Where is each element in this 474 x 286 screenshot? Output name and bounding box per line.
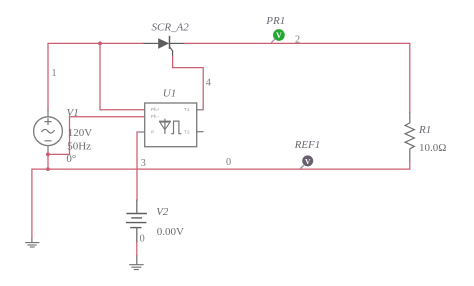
- svg-text:Ph+: Ph+: [151, 107, 160, 113]
- wire gate to U1 T1: [173, 56, 204, 110]
- wire to left ground: [32, 169, 48, 239]
- U1 inner thyristor triangle: [160, 122, 170, 130]
- U1 pin stub T1: [197, 109, 204, 111]
- SCR SCR_A2 triangle: [158, 38, 169, 49]
- AC source V1 plus sign: [45, 118, 52, 125]
- svg-text:R1: R1: [418, 124, 431, 136]
- svg-text:0: 0: [226, 157, 231, 168]
- AC source V1 sine: [42, 129, 55, 133]
- U1 pin stub T2: [197, 131, 204, 133]
- op-amp block U1 box: [145, 103, 197, 147]
- ground left: [25, 243, 39, 247]
- probe PR1 pointer: [271, 39, 275, 42]
- ground mid: [129, 265, 144, 270]
- svg-text:SCR_A2: SCR_A2: [152, 22, 190, 34]
- resistor R1 bottom lead: [409, 149, 411, 162]
- svg-text:V1: V1: [67, 107, 79, 119]
- resistor R1 top lead: [409, 112, 411, 123]
- svg-text:T1: T1: [184, 107, 190, 113]
- ground left stub: [31, 238, 33, 242]
- junction top rail to Ph+: [98, 42, 102, 46]
- wire junction to Ph+: [100, 43, 145, 109]
- battery V2 plate 1 long: [126, 213, 146, 215]
- wire top rail left (node 1 to SCR anode): [48, 42, 144, 44]
- wire alpha pin to V2 (net 3): [137, 132, 138, 201]
- wire bottom rail (net 0): [48, 168, 410, 170]
- wire battery to ground: [136, 242, 138, 256]
- AC source V1 body: [34, 117, 63, 146]
- battery V2 plate 2 short: [131, 217, 142, 219]
- probe REF1 pointer: [300, 165, 304, 168]
- svg-text:PR1: PR1: [265, 15, 285, 27]
- svg-text:3: 3: [141, 158, 146, 169]
- probe PR1 body: [273, 29, 285, 41]
- U1 inner pulse glyph: [171, 121, 181, 134]
- ground mid stub: [136, 256, 138, 265]
- svg-text:120V: 120V: [68, 127, 93, 139]
- SCR Q anode lead: [143, 42, 158, 44]
- wire source minus down: [47, 152, 49, 169]
- wire R1 top (from rail down): [409, 43, 411, 113]
- svg-text:V: V: [276, 31, 282, 40]
- junction bottom rail left: [46, 167, 50, 171]
- U1 inner thyristor bar: [159, 120, 171, 122]
- AC source V1 minus sign: [45, 140, 52, 142]
- AC source V1 top lead: [47, 109, 49, 117]
- probe REF1 body: [302, 155, 313, 166]
- svg-text:REF1: REF1: [294, 139, 321, 151]
- U1 pin stub alpha: [138, 131, 144, 133]
- AC source V1 bottom lead: [47, 146, 49, 153]
- svg-text:V: V: [305, 157, 311, 166]
- battery V2 plate 4 short: [130, 227, 141, 229]
- battery V2 bottom lead: [136, 228, 138, 243]
- svg-text:10.0Ω: 10.0Ω: [419, 142, 446, 154]
- svg-text:U1: U1: [163, 87, 176, 99]
- SCR gate lead: [170, 47, 173, 56]
- junction source minus: [46, 153, 50, 157]
- wire left vertical (net 1): [47, 43, 49, 111]
- svg-text:0.00V: 0.00V: [157, 226, 184, 238]
- SCR SCR_A2 cathode bar: [169, 36, 171, 49]
- wire source minus to Ph- riser: [48, 117, 145, 155]
- wire top rail right (SCR cathode to R1, net 2): [184, 42, 411, 44]
- svg-text:α: α: [151, 130, 154, 135]
- battery V2 top lead: [136, 200, 138, 214]
- svg-text:50Hz: 50Hz: [67, 141, 91, 153]
- wire R1 bottom to rail: [409, 161, 411, 170]
- U1 inner vertical line: [164, 119, 166, 134]
- SCR cathode lead: [170, 42, 185, 44]
- svg-text:T2: T2: [184, 129, 190, 135]
- svg-text:2: 2: [295, 34, 300, 45]
- svg-text:1: 1: [52, 68, 57, 79]
- svg-text:Ph-: Ph-: [151, 114, 160, 120]
- battery V2 plate 3 long: [126, 222, 146, 224]
- resistor R1 zigzag: [405, 123, 414, 149]
- svg-text:0: 0: [140, 233, 145, 244]
- svg-text:4: 4: [206, 77, 211, 88]
- svg-text:V2: V2: [156, 206, 169, 218]
